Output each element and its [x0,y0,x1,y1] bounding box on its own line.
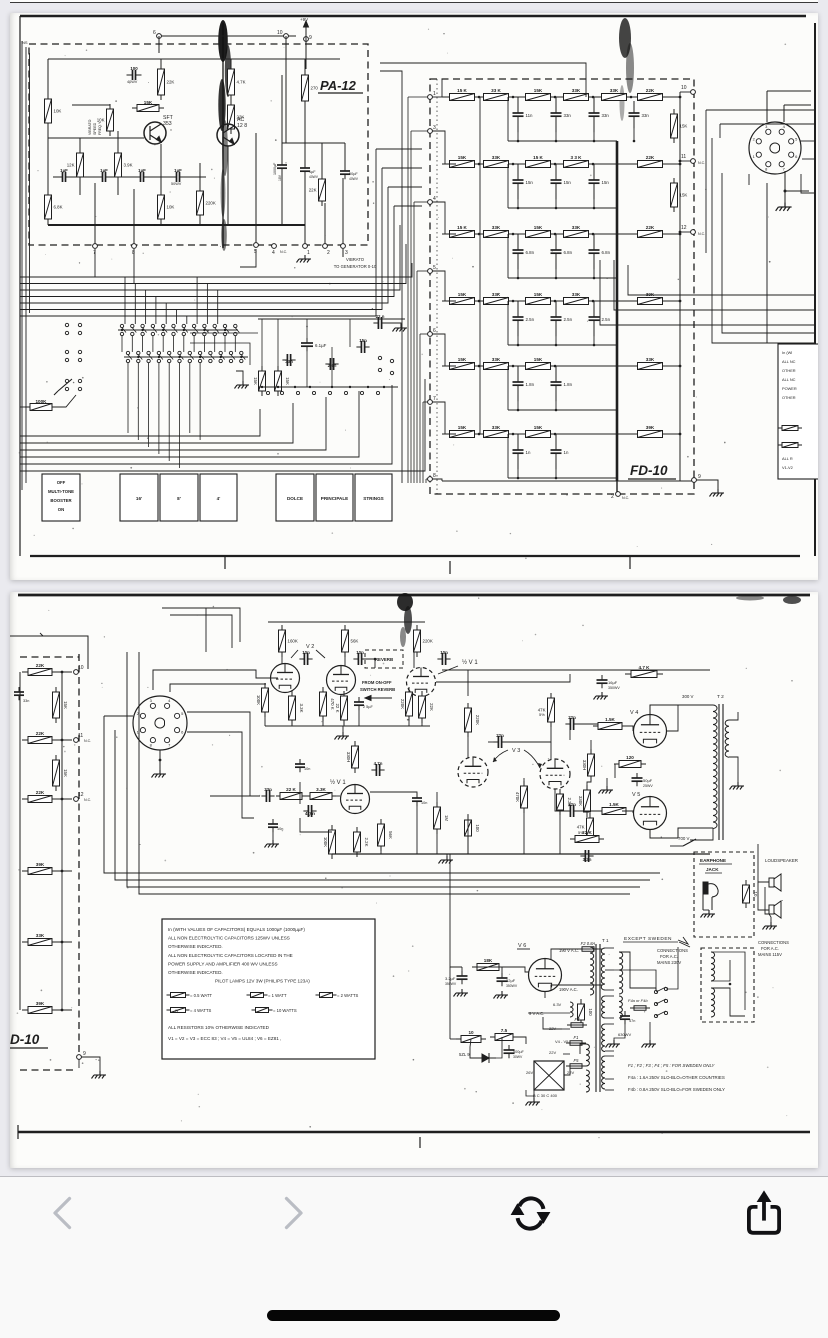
coil winding [586,1044,589,1066]
wire node link [432,131,456,164]
wire V4 plate to transformer [650,705,713,714]
frame tick mark [449,561,451,574]
resistor [247,993,268,998]
ground [393,324,408,332]
junction [517,277,520,280]
svg-text:1.5K: 1.5K [605,717,615,722]
capacitor 33n [261,787,274,802]
resistor 100K [323,825,336,859]
junction [240,356,242,358]
svg-text:6.3V: 6.3V [553,1002,562,1007]
svg-text:22K: 22K [646,155,655,160]
resistor 33K [479,292,514,305]
earphone jack dashed box [694,852,754,937]
svg-text:F1: F1 [574,1035,579,1040]
svg-text:33n: 33n [642,113,650,118]
coil winding [725,720,729,757]
stop tab PRINCIPALE [316,474,353,521]
svg-text:100K: 100K [323,837,328,847]
wire matrix verticals [121,336,123,352]
junction [512,233,515,236]
svg-text:33K: 33K [492,225,501,230]
diode zener [475,1053,496,1063]
svg-text:2: 2 [327,250,330,256]
ground [763,922,778,930]
svg-text:12: 12 [681,225,687,231]
coil winding [713,705,717,829]
svg-text:22K: 22K [429,703,434,711]
resistor 22K [419,691,435,723]
svg-text:33n: 33n [23,699,29,703]
svg-text:10K: 10K [54,109,62,114]
terminal 10 [277,30,288,38]
ground [594,692,609,700]
svg-text:F4b : 0.8A 250V SLO-BLO=FOR: F4b : 0.8A 250V SLO-BLO=FOR SWEDEN ONLY [628,1087,725,1092]
svg-text:39K: 39K [646,292,655,297]
junction [203,329,205,331]
fuse [630,1006,650,1011]
switch matrix row 2 [126,351,129,354]
svg-text:1: 1 [433,91,436,97]
wire ground bus [48,224,305,226]
capacitor 1n [551,434,569,469]
svg-text:2: 2 [611,494,614,500]
capacitor 1µF [98,168,111,182]
fuse F3 [567,1017,587,1027]
capacitor 6.8n [513,234,535,269]
junction [554,233,557,236]
junction [679,300,682,303]
resistor 33K [559,225,594,238]
svg-text:22K: 22K [36,731,45,736]
svg-text:11n: 11n [526,113,534,118]
svg-text:22K: 22K [309,188,317,193]
resistor 2.2K [354,827,370,857]
wire [281,75,283,160]
svg-text:22K: 22K [36,790,45,795]
svg-text:190V A.C.: 190V A.C. [559,987,578,992]
heavy bus wire [616,141,619,481]
ground [265,840,280,848]
chevron forward [287,1199,302,1228]
svg-text:½ V 1: ½ V 1 [330,779,346,786]
resistor 2.2K [557,789,573,815]
svg-text:100: 100 [130,66,138,71]
ground [599,786,614,794]
svg-text:= 4 WATTS: = 4 WATTS [190,1008,211,1013]
wire [78,1059,80,1068]
wire to right terminal [665,163,680,165]
svg-text:8: 8 [150,743,153,748]
svg-text:470K: 470K [515,792,520,802]
resistor 3.3K [289,691,305,725]
terminal 6 [428,328,436,336]
wire net verticals [261,319,263,366]
svg-text:10n: 10n [421,801,427,805]
terminal 7 [93,244,98,256]
wire [342,726,344,732]
svg-text:33n: 33n [264,787,272,792]
svg-text:3.3n: 3.3n [583,857,592,862]
svg-text:EXCEPT SWEDEN: EXCEPT SWEDEN [624,936,672,942]
resistor 15K [521,225,556,238]
svg-text:1.8n: 1.8n [564,382,573,387]
svg-text:10n: 10n [304,767,310,771]
svg-text:350WV: 350WV [608,686,620,690]
resistor 33 K [479,88,514,101]
wire socket corners [767,90,811,92]
resistor 56K [378,819,394,851]
capacitor [504,1045,515,1058]
svg-text:22n: 22n [568,715,576,720]
svg-text:40WV: 40WV [127,80,138,84]
notes box [162,919,375,1059]
junction [592,233,595,236]
wire [56,739,72,741]
wire [56,941,72,943]
ground [439,856,454,864]
resistor 220K [465,703,481,737]
wire matrix bus row2 [124,356,248,358]
ground [235,381,250,389]
capacitor [354,697,364,710]
wire base rail [48,137,144,139]
svg-text:10: 10 [78,665,84,671]
capacitor 10n [353,650,366,665]
junction [517,140,520,143]
wire [614,1024,625,1040]
svg-text:220K: 220K [423,639,433,644]
wire node link [432,271,456,301]
svg-text:15n: 15n [359,338,367,343]
junction [592,300,595,303]
svg-text:F2 0.8A: F2 0.8A [581,941,596,946]
svg-text:40WV: 40WV [309,175,319,179]
stop tab DOLCE [276,474,314,521]
svg-text:8: 8 [132,250,135,256]
resistor 33K [479,357,514,370]
svg-text:33n: 33n [564,113,572,118]
wire bottom row [442,480,694,482]
svg-text:7: 7 [433,396,436,402]
resistor 33K [479,425,514,438]
resistor 39K [22,1001,58,1014]
resistor 220K [400,687,413,721]
svg-text:ALL NC: ALL NC [782,359,796,364]
resistor 470 K [320,687,336,721]
junction [554,433,557,436]
resistor [778,426,802,431]
resistor 3.9K [115,148,133,182]
resistor 15K [275,366,291,396]
junction [331,386,333,388]
resistor 39K [632,425,669,438]
resistor [316,993,337,998]
resistor 15K [53,755,69,791]
wire bundle upper [20,263,412,277]
ink smudge column 2 [619,18,634,121]
coil winding [586,1070,589,1092]
wire filter row 2 [442,163,670,165]
svg-text:6.8n: 6.8n [564,250,573,255]
svg-text:33K: 33K [492,292,501,297]
junction [309,386,311,388]
svg-text:1µF: 1µF [174,168,182,173]
svg-text:T 1: T 1 [602,938,609,943]
resistor 4.7K [228,64,246,100]
resistor 15 K [521,155,556,168]
svg-text:ALL NON ELECTROLYTIC CAPACIT: ALL NON ELECTROLYTIC CAPACITORS 125WV UN… [168,936,290,941]
svg-text:3: 3 [433,125,436,131]
resistor 3 3 K [559,155,594,168]
junction [220,356,222,358]
coil winding [619,996,622,1018]
svg-text:1µF: 1µF [138,168,146,173]
capacitor [597,675,608,688]
svg-text:ON: ON [58,507,64,512]
wire switch to speakers [683,839,696,846]
ground [335,732,350,740]
junction [784,190,787,193]
svg-text:700 V: 700 V [678,836,690,841]
junction [61,1009,64,1012]
FD-10 dashed enclosure [430,79,694,494]
resistor 22 K [276,787,306,800]
svg-text:11: 11 [681,154,686,160]
svg-text:8: 8 [433,473,436,479]
svg-text:ALL RESISTORS 10% OTHER: ALL RESISTORS 10% OTHERWISE INDICATED [168,1025,270,1030]
svg-text:1: 1 [753,154,756,159]
svg-text:15K: 15K [63,769,68,777]
svg-text:47n: 47n [629,1019,635,1023]
svg-text:120: 120 [626,755,634,760]
svg-text:15K: 15K [458,155,467,160]
svg-text:6: 6 [433,328,436,334]
frame tick mark [629,556,631,569]
junction [383,386,385,388]
terminal 3 [341,244,348,256]
resistor [167,1008,190,1013]
svg-text:POWER: POWER [782,386,797,391]
ground [152,770,167,778]
svg-text:8: 8 [765,167,768,172]
coil winding [570,1002,573,1017]
svg-text:8': 8' [177,496,181,501]
terminal 5 [428,265,436,273]
resistor 33K [559,88,594,101]
ground [494,991,509,999]
svg-text:330H: 330H [582,760,587,771]
svg-text:1µF: 1µF [309,170,316,174]
wire [785,190,809,192]
svg-text:6: 6 [795,154,798,159]
svg-text:1µF: 1µF [60,168,68,173]
junction [277,386,279,388]
junction [679,96,682,99]
svg-text:3: 3 [765,124,768,129]
junction [555,140,558,143]
resistor 220K [414,625,433,657]
svg-text:470 K: 470 K [330,698,335,710]
arrow [365,696,392,701]
svg-text:6: 6 [181,730,184,735]
resistor 15K [521,357,556,370]
svg-text:7: 7 [168,743,171,748]
svg-text:15K: 15K [458,292,467,297]
wire [72,104,110,106]
resistor 33K [479,155,514,168]
svg-text:300 V: 300 V [682,694,694,699]
wire amp links [467,670,469,696]
junction [512,300,515,303]
coil winding [602,1024,605,1052]
capacitor 11n [513,97,534,132]
resistor 47K [577,813,594,841]
capacitor 2.5n [513,301,535,336]
svg-text:BOOSTER: BOOSTER [50,498,72,503]
wire [94,183,96,244]
capacitor 1.8n [551,366,573,401]
svg-text:5: 5 [181,711,184,716]
svg-text:33n: 33n [285,359,293,364]
crease line [436,79,438,494]
svg-text:22 n: 22 n [376,314,385,319]
terminal 1 [303,244,310,256]
junction [554,96,557,99]
svg-text:22 K: 22 K [286,787,296,792]
svg-text:2.5n: 2.5n [564,317,573,322]
svg-text:4: 4 [783,124,786,129]
capacitor [277,160,287,173]
svg-text:FOR A.C.: FOR A.C. [660,954,678,959]
svg-text:IV: IV [175,1009,179,1013]
connections 115V dashed box [701,948,754,1022]
svg-text:PRINCIPALE: PRINCIPALE [321,496,348,501]
capacitor [497,973,508,986]
svg-text:33K: 33K [572,88,581,93]
ground [642,1040,657,1048]
resistor 15 K [445,88,480,101]
resistor 22K [632,155,669,168]
junction [679,433,682,436]
terminal 6 [153,30,161,38]
junction [478,233,481,236]
tube [529,959,562,992]
schematic page 2 [10,592,818,1168]
wire [366,659,375,668]
junction [555,344,558,347]
svg-text:50WV: 50WV [171,182,182,186]
svg-text:18V: 18V [278,174,282,181]
svg-text:7: 7 [93,250,96,256]
tube [634,797,667,830]
svg-text:9: 9 [83,1051,86,1057]
svg-text:FROM ON-OFF: FROM ON-OFF [362,680,392,685]
terminal 2 [611,492,620,500]
resistor 7.5 [490,1028,518,1041]
svg-text:D-10: D-10 [10,1032,40,1047]
svg-text:56K: 56K [388,831,393,839]
wire top rail [159,35,296,37]
capacitor 15n [513,164,534,199]
resistor 15K [53,687,69,723]
scan speckles [17,598,793,1139]
capacitor 15n [551,164,572,199]
junction [593,140,596,143]
svg-text:10n: 10n [440,650,448,655]
terminal 12 [74,792,84,801]
svg-text:26V: 26V [526,1070,533,1075]
junction [159,759,162,762]
svg-text:40WV: 40WV [349,177,359,181]
wire pin1 stub [800,140,816,142]
svg-text:16µF: 16µF [608,680,618,685]
svg-text:22V: 22V [549,1050,556,1055]
junction [517,477,520,480]
resistor 22K [22,731,58,744]
svg-text:F4a : 1.6A 250V SLO-BLO=OTHER: F4a : 1.6A 250V SLO-BLO=OTHER COUNTRIES [628,1075,725,1080]
ink smudge column [218,20,231,251]
svg-text:F4a or F4b: F4a or F4b [628,998,648,1003]
junction [512,163,515,166]
junction [517,207,520,210]
tube [327,666,356,695]
svg-text:50µF: 50µF [349,172,358,176]
svg-text:1n: 1n [526,450,531,455]
svg-text:1.8n: 1.8n [526,382,535,387]
capacitor 2.5n [589,301,611,336]
capacitor 2.5n [551,301,573,336]
wire [551,949,582,959]
svg-text:270: 270 [311,86,319,91]
svg-text:10K: 10K [167,205,175,210]
svg-text:F1 ; F2 ; F3 ; F4 ; F5 : FOR: F1 ; F2 ; F3 ; F4 ; F5 : FOR SWEDEN ONLY [628,1063,716,1068]
wire to right terminal [665,300,680,302]
wire matrix bus row1 [118,329,238,331]
svg-text:F5: F5 [574,1058,580,1063]
wire terminal drops [94,249,96,277]
svg-text:33K: 33K [646,357,655,362]
wire socket loop [712,138,816,343]
ground [606,1040,621,1048]
svg-text:MAINS 115V: MAINS 115V [758,952,782,957]
capacitor [632,773,643,786]
svg-text:2.2K: 2.2K [364,837,369,846]
svg-text:SWITCH REVERB: SWITCH REVERB [360,687,395,692]
ground [92,1071,107,1079]
svg-text:15K: 15K [534,88,543,93]
svg-text:CONNECTIONS: CONNECTIONS [657,948,688,953]
svg-text:6.8n: 6.8n [526,250,535,255]
switch contacts left [65,323,68,326]
capacitor [457,971,468,984]
capacitor 10n [437,650,450,665]
junction [121,329,123,331]
wire node link [432,96,442,98]
page border frame [20,15,806,18]
wire [703,909,709,911]
svg-text:4.7n: 4.7n [374,761,383,766]
svg-text:15K: 15K [534,292,543,297]
wire matrix feeds [124,277,126,324]
svg-text:In (WITH VALUES OF CAPACITO: In (WITH VALUES OF CAPACITORS) EQUALS 10… [168,927,305,932]
svg-text:47K: 47K [577,825,585,830]
junction [593,277,596,280]
wire node link [432,334,456,366]
svg-text:OTHERWISE INDICATED.: OTHERWISE INDICATED. [168,944,223,949]
tube [271,664,300,693]
resistor 39K [22,862,58,875]
